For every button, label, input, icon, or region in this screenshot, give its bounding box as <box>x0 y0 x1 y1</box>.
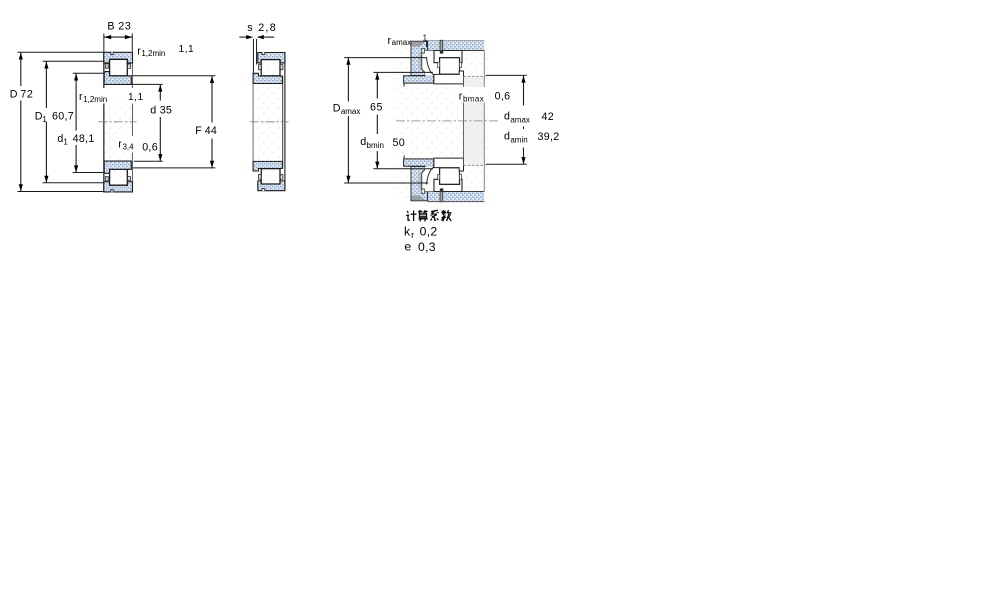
dimension d_amax/d_amin: vertical line with arrows <box>523 76 525 106</box>
svg-text:23: 23 <box>118 21 131 33</box>
housing shoulder face shading <box>418 53 421 69</box>
svg-text:50: 50 <box>393 137 406 149</box>
outer ring notch bottom <box>111 190 113 193</box>
svg-text:65: 65 <box>370 102 383 114</box>
svg-text:42: 42 <box>542 111 555 123</box>
dimension d1: extension lines <box>73 72 104 74</box>
label mask over bore band (r_3,4 0,6 row) <box>114 136 159 153</box>
fig2 bottom section (mirror) <box>253 161 285 191</box>
dimension D1 60,7: vertical line with arrows <box>45 62 47 109</box>
label mask (r_amax) <box>386 37 411 48</box>
fig2 inner ring left face silhouette <box>252 73 254 170</box>
fig2 top section <box>253 52 285 83</box>
dimension F: extension lines <box>133 75 216 77</box>
dimension d 35: vertical line with arrows <box>159 85 161 101</box>
char 数 <box>441 210 451 221</box>
outer ring top <box>104 52 133 63</box>
svg-text:48,1: 48,1 <box>73 133 95 145</box>
label mask over bore band (r_1,2min 1,1 row) <box>79 88 138 104</box>
dimension s: right arrow and tail <box>262 36 274 38</box>
housing shoulder <box>411 41 428 75</box>
cage left <box>105 64 108 69</box>
dimension d_a: extension lines <box>486 74 527 76</box>
outer ring notch (dark) <box>440 51 444 54</box>
svg-text:d: d <box>150 104 156 116</box>
bearing roller (outline) <box>440 58 460 74</box>
svg-text:0,2: 0,2 <box>420 225 438 239</box>
housing shoulder relief groove <box>422 49 425 53</box>
fig1 right silhouette line <box>131 52 133 192</box>
char 系 <box>430 210 439 220</box>
fig2 cage right bottom <box>280 174 283 179</box>
fig2 outer ring right face silhouette <box>284 53 286 191</box>
fig2 roller bottom <box>261 169 280 184</box>
svg-text:35: 35 <box>160 104 173 116</box>
fig1 bore band (middle) <box>104 84 132 161</box>
inner ring top with left flange <box>104 72 131 85</box>
fig2 inner ring right face silhouette <box>282 76 284 167</box>
housing bore band <box>428 40 485 50</box>
svg-text:0,6: 0,6 <box>495 91 511 103</box>
svg-text:e: e <box>404 240 411 254</box>
label mask (50 value) <box>391 135 408 150</box>
fig2 outer ring top <box>258 53 285 63</box>
outer ring bottom <box>104 182 133 192</box>
dimension B: line and arrows <box>104 36 132 38</box>
fig2 outer ring notch bottom <box>262 189 265 191</box>
dimension s: extension lines <box>252 39 254 73</box>
chinese heading: 计算系数 (drawn strokes) <box>406 210 451 221</box>
locating pin / oil hole <box>440 40 443 50</box>
svg-text:s: s <box>247 22 252 34</box>
fig3 faint hatched background <box>396 40 488 202</box>
dimension D_amax 65: vertical line with arrows <box>347 58 349 102</box>
dimension F 44: vertical line with arrows <box>211 76 213 123</box>
svg-text:0,3: 0,3 <box>418 240 436 254</box>
shaft abutment collar <box>404 72 434 83</box>
shaft abutment dashed line lower <box>464 164 486 166</box>
dimension d_bmin: extension lines <box>373 71 433 73</box>
shaft step line <box>463 77 465 166</box>
fig2 outer ring notch <box>262 52 265 54</box>
svg-text:1: 1 <box>423 33 428 42</box>
cage right bottom <box>128 177 131 181</box>
fig2 cage left bottom <box>258 174 261 179</box>
shaft abutment dashed line upper <box>464 75 486 77</box>
figure 2: bearing side cross-section with s dimension <box>239 35 288 191</box>
bearing outer ring (outline) <box>434 51 462 63</box>
fig3 lower half assembly (mirror) <box>404 155 485 201</box>
svg-text:72: 72 <box>20 88 33 100</box>
svg-text:60,7: 60,7 <box>52 110 74 122</box>
fig3 upper half assembly <box>404 40 485 86</box>
svg-text:1,1: 1,1 <box>128 92 144 103</box>
dimension d: extension lines <box>131 83 162 85</box>
fig2 centerline <box>250 121 289 123</box>
inner ring flange chamfer curve <box>426 58 433 76</box>
fig1 centerline <box>98 121 136 123</box>
fig2 inner ring bottom with protruding left flange <box>253 161 282 171</box>
dimension d_bmin 50: vertical line with arrows <box>376 73 378 99</box>
char 计 <box>406 210 416 221</box>
fig2 inner ring top with protruding left flange <box>253 73 282 83</box>
dimension B: extension lines <box>103 34 105 52</box>
fig1 left silhouette line <box>103 52 105 192</box>
dimension D 72: vertical line with arrows <box>20 53 22 87</box>
cage left bottom <box>105 177 108 181</box>
fig2 bore band (middle) <box>253 84 282 162</box>
bearing inner ring with right flange (outline) <box>434 71 464 84</box>
svg-text:B: B <box>107 21 114 33</box>
fig3 shaft shoulder region (right, light gray) <box>464 77 485 166</box>
dimension d1 48,1: vertical line with arrows <box>75 74 77 131</box>
housing shoulder top shading <box>411 42 426 47</box>
svg-text:2,8: 2,8 <box>258 22 277 34</box>
svg-text:D: D <box>10 88 18 100</box>
dimension D1: extension lines <box>43 60 104 62</box>
dimension D_amax: extension lines <box>344 57 427 59</box>
dimension s: left arrow and tail <box>239 36 248 38</box>
inner ring bottom with left flange <box>104 161 131 173</box>
char 算 <box>418 210 428 221</box>
fig2 roller top <box>261 60 280 76</box>
fig1 top section <box>104 52 133 84</box>
svg-text:39,2: 39,2 <box>538 131 560 143</box>
svg-text:F: F <box>195 125 202 137</box>
fig2 cage left <box>258 65 261 70</box>
cage right <box>128 64 131 69</box>
svg-text:44: 44 <box>205 125 218 137</box>
roller bottom <box>110 169 128 185</box>
r_a leader line <box>426 41 428 47</box>
svg-text:1,1: 1,1 <box>179 44 195 55</box>
figure 1: bearing cross-section with boundary dimensions <box>17 34 215 193</box>
label mask (r_bmax 0,6 row) <box>452 87 514 103</box>
fig2 outer ring bottom <box>258 181 285 191</box>
svg-text:0,6: 0,6 <box>142 141 158 153</box>
cage tick left <box>438 62 440 67</box>
dimension D: extension lines <box>17 51 103 53</box>
cage tick right <box>460 62 462 67</box>
inner ring flange wedge (white) <box>425 51 434 75</box>
figure 3: mounting arrangement with abutment dimensions <box>344 37 527 203</box>
housing outline bottom edge <box>428 201 485 203</box>
fig3 centerline <box>396 120 500 122</box>
fig2 cage right <box>280 65 283 70</box>
drawing cut edge <box>483 51 485 192</box>
roller top <box>110 59 128 76</box>
fig1 bottom section (mirror) <box>104 161 133 192</box>
outer ring notch <box>111 52 113 55</box>
